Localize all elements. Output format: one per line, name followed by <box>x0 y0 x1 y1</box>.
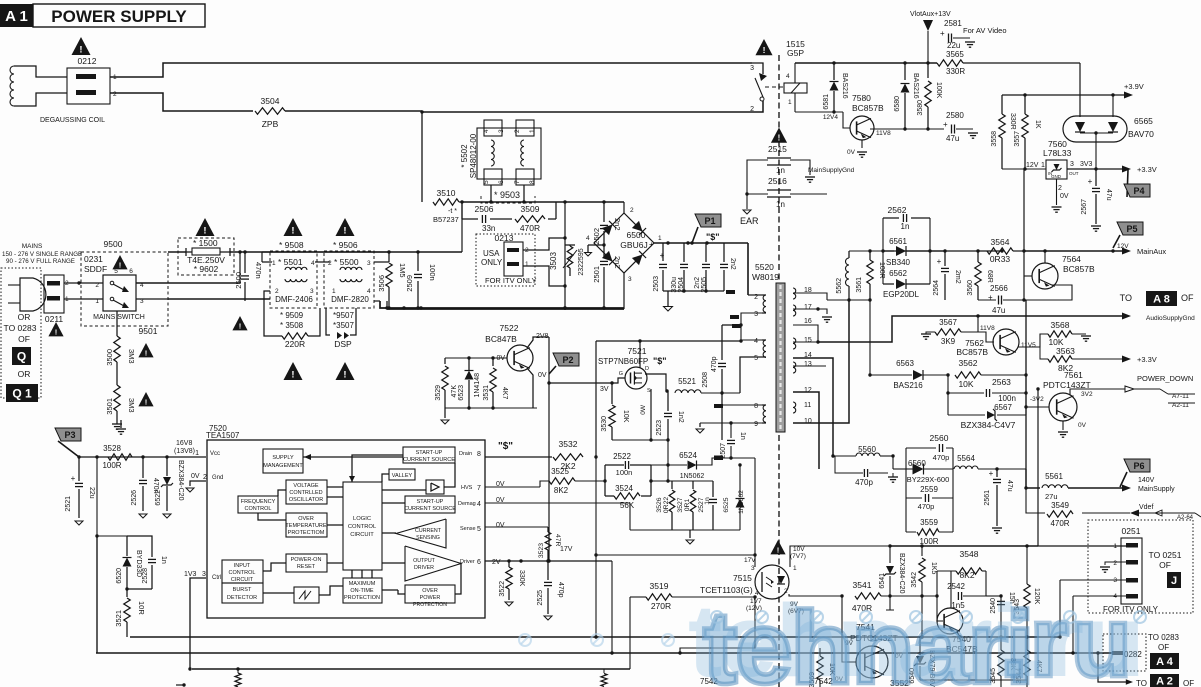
svg-text:7522: 7522 <box>500 323 519 333</box>
cap 2504 330u <box>671 243 688 293</box>
cap 2527 1n <box>698 481 717 530</box>
resistor 3532 2K2 <box>553 439 583 471</box>
wire switch out 3 <box>136 298 168 300</box>
svg-text:CURRENT SOURCE: CURRENT SOURCE <box>403 457 455 463</box>
loop 2559 470p <box>906 469 953 532</box>
svg-text:3562: 3562 <box>959 358 978 368</box>
wire opto pin3 <box>0 0 1 1</box>
line 469 <box>891 454 906 469</box>
svg-text:0R22: 0R22 <box>663 497 670 513</box>
svg-text:AudioSupplyGnd: AudioSupplyGnd <box>1146 315 1195 322</box>
label 9V 6V7 <box>788 601 804 615</box>
svg-text:220R: 220R <box>285 339 305 349</box>
svg-text:DEGAUSSING COIL: DEGAUSSING COIL <box>40 117 105 124</box>
svg-text:2: 2 <box>95 282 99 289</box>
svg-text:7561: 7561 <box>1064 370 1083 380</box>
wire 7540 base <box>937 596 943 621</box>
svg-text:10V: 10V <box>793 546 805 553</box>
loop 3559 100R <box>906 518 953 546</box>
svg-text:3532: 3532 <box>559 439 578 449</box>
label OR <box>18 312 31 322</box>
label 9509 <box>280 311 304 330</box>
svg-text:1: 1 <box>272 260 276 267</box>
svg-text:BAV70: BAV70 <box>1128 129 1154 139</box>
svg-text:BY229X-600: BY229X-600 <box>907 475 950 484</box>
svg-text:+: + <box>940 29 945 38</box>
label range2 <box>6 258 75 265</box>
svg-text:* 9508: * 9508 <box>279 240 304 250</box>
wire 7561 base <box>1024 405 1049 408</box>
bottom left dot <box>176 683 186 686</box>
bottom line 680 <box>920 679 1027 681</box>
svg-text:TO 0251: TO 0251 <box>1149 550 1182 560</box>
cap 2523 1n2 <box>656 391 684 483</box>
svg-text:VALLEY: VALLEY <box>392 473 413 479</box>
dotted box FOR ITV ONLY <box>1088 520 1193 613</box>
svg-text:OF: OF <box>1158 643 1169 652</box>
ground under 3501 <box>112 424 122 429</box>
svg-text:470R: 470R <box>520 223 540 233</box>
svg-text:3K9: 3K9 <box>941 337 956 346</box>
svg-text:P5: P5 <box>1126 224 1137 234</box>
svg-text:6561: 6561 <box>889 237 907 246</box>
svg-text:330R: 330R <box>1009 113 1016 130</box>
box INPUT CONTROL CIRCUIT <box>222 560 263 583</box>
label 7580 <box>852 93 884 113</box>
svg-text:4: 4 <box>786 73 790 80</box>
svg-text:DRIVER: DRIVER <box>414 565 434 571</box>
resistor 3527 0R1 <box>677 481 696 530</box>
svg-text:3558: 3558 <box>991 131 998 147</box>
svg-text:9500: 9500 <box>104 239 123 249</box>
cap 2580 47u <box>943 111 978 143</box>
svg-text:OUT: OUT <box>1069 171 1079 176</box>
bridge out wire <box>654 241 748 244</box>
svg-text:0V: 0V <box>847 149 856 156</box>
arrow +3.3V mid <box>1122 355 1157 364</box>
svg-text:+: + <box>71 474 76 483</box>
resistor 3524 56K <box>614 484 640 510</box>
wire pin2 to lower line <box>110 93 253 111</box>
svg-text:A 8: A 8 <box>1153 293 1170 305</box>
svg-text:BC857B: BC857B <box>1063 264 1095 274</box>
svg-text:2V: 2V <box>492 559 501 566</box>
connector 0251 <box>1113 538 1142 604</box>
svg-text:TO 0283: TO 0283 <box>1148 633 1180 642</box>
svg-text:9: 9 <box>754 421 758 428</box>
IC right pins <box>458 451 505 566</box>
svg-text:3531: 3531 <box>483 385 490 401</box>
label 9506 <box>333 240 358 250</box>
bridge labels <box>586 207 662 283</box>
svg-text:BAS216: BAS216 <box>912 73 919 99</box>
svg-text:OR: OR <box>18 312 31 322</box>
svg-text:5: 5 <box>754 355 758 362</box>
svg-text:1: 1 <box>788 99 792 106</box>
label 0231 <box>84 254 103 264</box>
svg-text:FREQUENCY: FREQUENCY <box>241 499 276 505</box>
resistor 3530 10K <box>601 383 629 440</box>
svg-text:0V: 0V <box>538 372 547 379</box>
box VALLEY <box>389 469 415 480</box>
svg-text:10R: 10R <box>137 601 146 615</box>
connector 0212 <box>67 68 117 104</box>
primary winding 2-3 <box>754 294 766 318</box>
transformer 5502 SP48012 <box>460 120 541 204</box>
svg-text:6: 6 <box>129 268 133 275</box>
resistor 3542 1K5 <box>911 546 937 639</box>
wire pin2 <box>748 294 762 296</box>
mains plug <box>8 278 46 311</box>
svg-text:2521: 2521 <box>65 496 72 512</box>
box START-UP CURRENT SOURCE 1 <box>403 447 455 463</box>
svg-text:MANAGEMENT: MANAGEMENT <box>263 463 303 469</box>
bridge bottom vertical <box>623 273 625 309</box>
svg-text:2580: 2580 <box>946 111 964 120</box>
svg-text:17: 17 <box>804 304 812 311</box>
diode 6524 1N5062 <box>651 451 757 567</box>
rail 12v top <box>849 249 883 252</box>
svg-text:!: ! <box>145 397 148 406</box>
transistor 7541 <box>845 622 898 678</box>
svg-text:!: ! <box>343 226 346 237</box>
svg-text:OF: OF <box>1181 293 1194 303</box>
svg-text:2501: 2501 <box>592 266 601 283</box>
box BURST DETECTOR <box>222 583 263 603</box>
svg-text:3565: 3565 <box>946 50 964 59</box>
vertical 97 down <box>95 457 98 538</box>
dashed box 9500 <box>81 252 168 326</box>
warning tri 3501 <box>138 392 153 406</box>
wire pin17 gnd <box>793 307 832 322</box>
line Vdef <box>1082 504 1201 521</box>
line 12V in <box>1002 167 1046 170</box>
svg-text:470p: 470p <box>711 356 718 372</box>
arrow under pin9 wire <box>696 423 704 433</box>
zener 6540 BZX79 <box>909 637 935 687</box>
wire top rail right <box>795 61 937 64</box>
wire pin12 140v <box>793 392 819 469</box>
wire 7540 collector <box>950 571 952 608</box>
powerdown to 0251 <box>1036 387 1126 546</box>
svg-text:5560: 5560 <box>858 445 876 454</box>
wire gate from drive <box>0 0 1 1</box>
svg-text:* 9509: * 9509 <box>280 311 304 320</box>
svg-text:3527: 3527 <box>677 497 684 512</box>
warning triangle under 0211 <box>48 322 63 336</box>
svg-text:PROTECTION: PROTECTION <box>413 602 447 608</box>
svg-text:1: 1 <box>793 565 797 572</box>
flag P3 <box>55 428 81 457</box>
diode pair 6565 BAV70 <box>1063 116 1154 169</box>
wire pin16-15 join <box>793 325 820 344</box>
svg-text:3519: 3519 <box>650 581 669 591</box>
svg-text:BAS216: BAS216 <box>841 73 848 99</box>
svg-text:6565: 6565 <box>1134 116 1153 126</box>
svg-text:22u: 22u <box>88 487 95 499</box>
resistor 3529 47K <box>435 358 458 408</box>
wire degauss down to thermistor <box>421 111 423 202</box>
label 7521 <box>628 346 647 356</box>
zener 6522 BZX384-C20 <box>155 457 184 518</box>
svg-text:3503: 3503 <box>549 252 558 270</box>
label 0212 <box>78 56 97 66</box>
svg-text:+3.3V: +3.3V <box>1137 355 1157 364</box>
cap 2500 470n <box>234 252 263 301</box>
svg-text:LOGIC: LOGIC <box>353 516 371 522</box>
small resistor bottom <box>235 669 241 687</box>
svg-text:* 9506: * 9506 <box>333 240 358 250</box>
svg-text:3: 3 <box>498 129 505 133</box>
svg-text:1V3: 1V3 <box>184 571 197 578</box>
wire pin13 <box>793 365 826 367</box>
primary bus top <box>385 306 624 309</box>
transformer 5501 <box>262 257 330 282</box>
cap 2521 22u <box>65 457 95 525</box>
box MAXIMUM ON-TIME <box>343 578 382 603</box>
svg-text:PROTECTION: PROTECTION <box>344 595 380 601</box>
label BZX384-C4V7 <box>961 420 1016 430</box>
svg-text:2: 2 <box>750 106 754 113</box>
resistor 3548 8K2 <box>935 549 986 598</box>
arrow end bus <box>0 0 1 1</box>
transistor 7562 <box>956 329 1036 357</box>
svg-text:6520: 6520 <box>116 568 123 584</box>
label 5520 <box>752 262 779 282</box>
flag P2 <box>549 353 579 374</box>
svg-text:2: 2 <box>113 91 117 98</box>
svg-text:1n: 1n <box>776 166 785 175</box>
warning tri left mid <box>232 316 247 330</box>
svg-text:3561: 3561 <box>856 277 863 293</box>
loop 2560 470p <box>906 433 953 469</box>
black box J <box>1167 572 1181 588</box>
svg-text:1: 1 <box>525 261 529 268</box>
warning tri relay <box>755 39 772 55</box>
svg-text:OR: OR <box>18 369 31 379</box>
arrow AudioSupplyGnd <box>1122 313 1195 323</box>
box 2562 loop <box>883 218 930 284</box>
zener 6541 BZX384 <box>879 546 905 610</box>
wire opto pin2 <box>789 594 842 596</box>
svg-text:0R1: 0R1 <box>684 499 691 512</box>
resistor 3558 330R <box>991 95 1016 169</box>
svg-text:1K5: 1K5 <box>930 562 937 575</box>
svg-text:POWER-ON: POWER-ON <box>291 557 322 563</box>
svg-text:0251: 0251 <box>1122 526 1141 536</box>
svg-text:+: + <box>660 251 665 260</box>
svg-text:100n: 100n <box>428 264 437 281</box>
svg-text:3525: 3525 <box>551 467 569 476</box>
svg-text:* 5501: * 5501 <box>278 257 303 267</box>
svg-text:Drain: Drain <box>459 451 472 457</box>
svg-text:1: 1 <box>658 235 662 242</box>
warning triangle top-left <box>72 37 91 56</box>
svg-text:Sense: Sense <box>460 526 476 532</box>
svg-text:5564: 5564 <box>957 454 975 463</box>
resistor 3580 100K <box>917 63 942 129</box>
svg-text:6581: 6581 <box>823 94 830 110</box>
line mainaux <box>1024 249 1125 252</box>
gnd 7560 <box>1052 179 1069 212</box>
svg-text:+: + <box>937 257 942 266</box>
arrow POWER_DOWN <box>1125 374 1193 394</box>
gate drive vertical <box>547 337 550 561</box>
label 0251 <box>1122 526 1141 536</box>
y-cap 2516 <box>767 176 791 209</box>
svg-text:MainAux: MainAux <box>1137 247 1166 256</box>
label 11V8 <box>876 130 891 137</box>
label BC847B <box>485 334 517 344</box>
svg-text:6524: 6524 <box>679 451 697 460</box>
wire N line <box>168 298 270 300</box>
arrow +3.9V <box>1124 82 1144 99</box>
svg-text:DMF-2820: DMF-2820 <box>331 295 369 304</box>
svg-text:8: 8 <box>529 180 536 184</box>
svg-text:0V: 0V <box>496 522 505 529</box>
svg-text:3568: 3568 <box>1051 320 1070 330</box>
black box A3 <box>1150 674 1179 687</box>
svg-text:2503: 2503 <box>653 276 660 292</box>
gnd 0251 pin2 <box>1100 562 1126 572</box>
resistor 3506 1M5 <box>377 250 407 309</box>
svg-text:100K: 100K <box>935 82 942 99</box>
svg-text:"$": "$" <box>498 441 513 452</box>
svg-text:MainSupplyGnd: MainSupplyGnd <box>808 167 855 174</box>
svg-text:HVS: HVS <box>461 485 473 491</box>
svg-text:POWER_DOWN: POWER_DOWN <box>1137 374 1193 383</box>
label USA ONLY <box>481 249 503 267</box>
bridge rectifier 6500 GBU6J <box>594 213 654 273</box>
wire pin18 rail <box>827 298 870 301</box>
svg-text:* 9503: * 9503 <box>494 190 520 200</box>
resistor 3541 470R <box>840 580 937 613</box>
svg-text:Vdef: Vdef <box>1139 504 1153 511</box>
svg-text:Driver: Driver <box>460 559 475 565</box>
vertical 262 <box>261 252 263 262</box>
svg-text:6500: 6500 <box>627 230 646 240</box>
demag cluster rails <box>630 481 740 544</box>
box VCO <box>286 480 327 504</box>
svg-text:DETECTOR: DETECTOR <box>227 595 257 601</box>
black box Q1 <box>6 384 38 402</box>
svg-text:3563: 3563 <box>1056 346 1075 356</box>
wire 521 stub <box>0 0 1 1</box>
svg-text:3549: 3549 <box>1051 501 1069 510</box>
wire 7522 base rail <box>445 356 507 359</box>
resistor 3521 10R <box>114 589 146 637</box>
svg-text:270R: 270R <box>651 601 671 611</box>
svg-text:CURRENT: CURRENT <box>415 528 442 534</box>
wire 7540 emitter <box>957 632 960 637</box>
arrow MainSupply <box>1122 477 1175 493</box>
wire pin14 audio <box>793 358 835 458</box>
svg-text:OF: OF <box>18 334 30 344</box>
svg-text:2563: 2563 <box>992 377 1011 387</box>
cap 2508 470p <box>702 325 741 393</box>
label 1515 G5P <box>786 39 805 58</box>
sec winding 17-16 <box>793 304 812 325</box>
dashed 9503 <box>481 196 535 203</box>
svg-text:!: ! <box>203 226 206 237</box>
IC internal wires <box>258 454 461 595</box>
warning tri under DSP <box>336 362 355 381</box>
svg-text:68R: 68R <box>986 270 993 283</box>
svg-text:!: ! <box>291 226 294 237</box>
svg-text:6567: 6567 <box>994 403 1012 412</box>
wire 7562 base <box>978 332 994 342</box>
svg-text:2526: 2526 <box>131 490 138 506</box>
svg-text:CONTROL: CONTROL <box>229 570 256 576</box>
svg-text:5: 5 <box>483 180 490 184</box>
svg-text:2566: 2566 <box>990 284 1008 293</box>
cap 2n2 fourth <box>720 243 736 291</box>
relay coil 1515 <box>784 63 807 112</box>
label 9508 <box>279 240 304 250</box>
svg-text:BZX384-C4V7: BZX384-C4V7 <box>961 420 1016 430</box>
watermark tehnari.ru <box>519 583 1146 687</box>
svg-text:10K: 10K <box>622 410 629 423</box>
arrow below 3529 rail <box>441 408 449 424</box>
diode 6523 1N4148 <box>458 358 481 408</box>
svg-text:TEA1507: TEA1507 <box>206 431 240 440</box>
svg-text:4: 4 <box>754 338 758 345</box>
resistor 3569 10K <box>809 648 835 687</box>
svg-text:100R: 100R <box>102 461 121 470</box>
label MAINS <box>22 243 43 250</box>
svg-text:Q: Q <box>17 349 26 363</box>
box START-UP CURRENT SOURCE 2 <box>404 496 456 513</box>
svg-text:4K7: 4K7 <box>501 387 508 400</box>
label SDDF <box>84 264 107 274</box>
svg-text:3501: 3501 <box>105 398 114 415</box>
svg-text:3504: 3504 <box>261 96 280 106</box>
bridge diodes <box>602 221 646 265</box>
svg-text:330u: 330u <box>671 277 678 293</box>
svg-text:3: 3 <box>754 311 758 318</box>
svg-text:2522: 2522 <box>613 452 631 461</box>
label FOR ITV ONLY r <box>1103 605 1159 614</box>
wire 7522 collector <box>527 337 549 348</box>
svg-text:3580: 3580 <box>917 100 924 116</box>
diode 6560 BY229X-600 <box>906 459 953 484</box>
degaussing coil <box>10 66 67 106</box>
svg-text:BC857B: BC857B <box>852 103 884 113</box>
label 9500 <box>104 239 123 249</box>
svg-text:* 1500: * 1500 <box>193 238 218 248</box>
svg-text:(13V8): (13V8) <box>174 448 195 455</box>
svg-text:D: D <box>645 366 649 372</box>
wire 7562 collector <box>0 0 1 1</box>
wire 0251 pin3 <box>1058 580 1126 639</box>
cap 2503 electrolytic <box>653 243 667 292</box>
svg-text:CONTROL: CONTROL <box>245 506 272 512</box>
svg-text:12V: 12V <box>1026 162 1039 169</box>
svg-text:2509: 2509 <box>405 275 414 292</box>
bus 669 <box>188 667 630 670</box>
bus 653 <box>96 652 1112 654</box>
svg-text:11V8: 11V8 <box>876 130 891 137</box>
svg-text:ZPB: ZPB <box>262 119 279 129</box>
isolation dashed line <box>778 55 780 687</box>
svg-text:2n2: 2n2 <box>729 258 736 270</box>
transformer DMF-2406 <box>275 288 314 304</box>
snubber top <box>462 201 556 203</box>
wire drain pin8 <box>485 456 552 458</box>
label 10V 7V7 <box>790 546 806 560</box>
title POWER SUPPLY <box>33 4 205 27</box>
black bar 0282 <box>1112 650 1142 659</box>
